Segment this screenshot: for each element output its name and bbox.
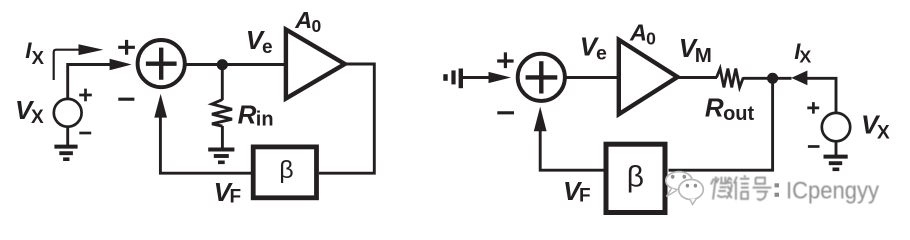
wire V_X bottom to ground [66,126,69,145]
watermark wechat icon [666,172,704,205]
label minus at summer (left) [118,98,134,101]
wire beta to summer (right feedback) [540,128,606,170]
label + at summer (right) [497,52,513,68]
arrowhead into summer bottom (left) [154,94,167,118]
wire R_out to node [743,77,792,80]
hanzi wei [711,177,727,200]
summing junction S1 (left) [138,40,185,87]
watermark colon [775,183,780,187]
svg-text:Ve: Ve [246,25,273,58]
wire V_X bottom to ground (right) [835,141,838,155]
svg-text:VM: VM [679,33,712,67]
wire ground to summer arrow (right) [462,76,490,79]
wire summer to amp (left) [185,63,285,66]
wire amp output down to feedback (left loop) [319,64,374,173]
op-amp A0 (right triangle) [619,40,678,114]
svg-text:A0: A0 [629,19,656,48]
resistor R_out (horizontal zigzag) [717,69,744,88]
svg-text:Rout: Rout [705,92,755,125]
wire I_X arrow to V_X (right) [806,78,836,112]
arrowhead into summer (right) [489,72,512,83]
wire summer to amp (right) [565,76,618,79]
wire beta to summer (left feedback) [160,114,253,173]
label minus at summer (right) [497,111,514,114]
label + at summer (left) [118,40,135,55]
svg-text:VF: VF [214,177,242,208]
voltage source V_X (left) [54,99,82,127]
ground below V_X (right) [824,155,848,159]
node dot N2 [767,73,778,84]
svg-text:Rin: Rin [238,99,274,130]
svg-text:Ve: Ve [580,32,607,65]
arrowhead into summer (left) [110,59,132,71]
arrowhead into summer bottom (right) [534,107,547,132]
svg-text:β: β [279,156,293,184]
resistor R_in (vertical zigzag) [212,100,232,127]
ground below R_in [208,148,234,152]
hanzi hao [753,178,772,200]
sideways ground at right summer input [459,69,463,89]
minus sign of V_X right [808,145,820,148]
svg-text:VX: VX [861,110,890,144]
watermark chinese text wei xin hao (white emboss shadow) [712,177,773,202]
svg-text:IX: IX [794,39,811,66]
svg-text:VF: VF [563,176,591,207]
wire node to resistor R_in [221,65,224,100]
svg-text:VX: VX [15,95,44,128]
minus sign of V_X left [79,132,91,135]
wire resistor to ground [221,126,224,148]
feedback block beta (left) [253,147,316,198]
op-amp A0 (left triangle) [286,30,345,99]
summing junction S2 (right) [518,54,565,101]
plus sign of V_X right [807,102,819,114]
svg-text:A0: A0 [294,7,321,36]
wire V_X top to summer input [68,65,111,99]
hanzi xin [734,175,750,199]
wire amp output to R_out [678,76,718,79]
node dot N1 [217,59,228,70]
svg-text:IX: IX [25,38,44,68]
voltage source V_X (right) [822,113,850,141]
ground below V_X (left) [54,145,77,149]
feedback block beta (right) [606,144,665,212]
current direction arrow I_X (left) [54,50,80,80]
arrowhead of I_X into node (right, pointing left) [791,71,807,86]
svg-text:ICpengyy: ICpengyy [786,177,880,204]
svg-text:β: β [627,161,644,194]
wire node down to feedback (right loop) [669,78,773,170]
plus sign of V_X left [79,89,92,102]
